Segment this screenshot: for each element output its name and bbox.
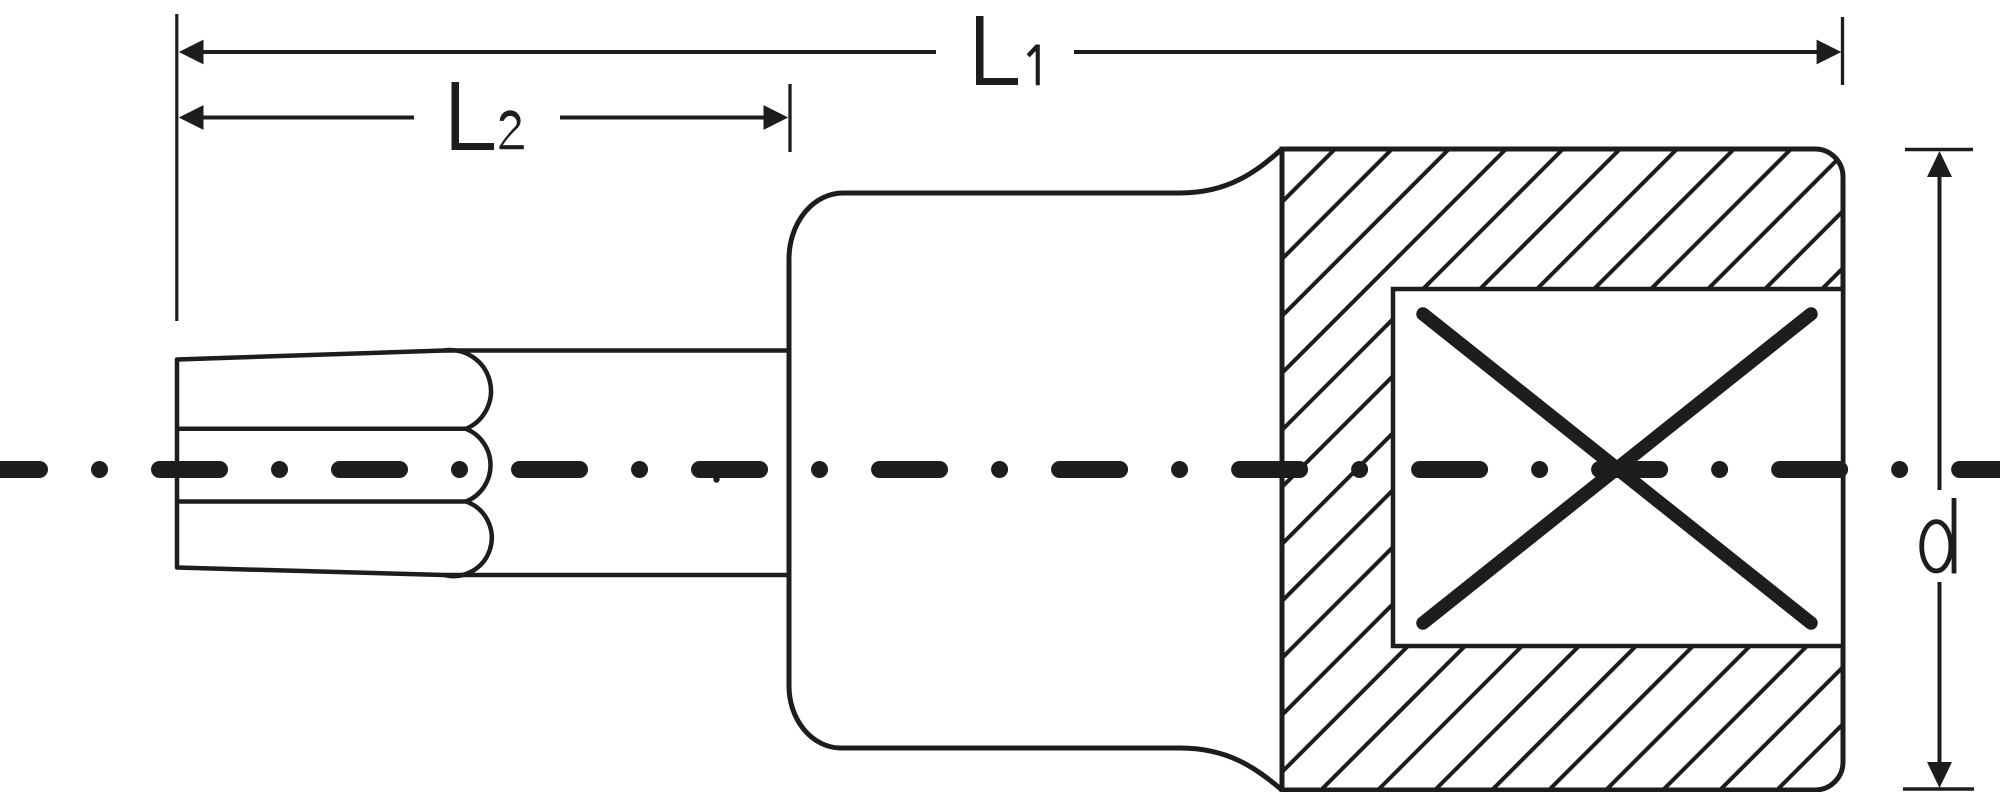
L1 dimension line [200,50,936,54]
shaft top line [444,348,789,353]
L2 dimension line [200,116,414,120]
d label [1922,498,1954,574]
d dimension: lower arrow [1927,762,1952,788]
X cross in drive square [1423,314,1811,623]
d dimension: top tick [1905,148,1973,152]
block outline [1282,149,1843,790]
L2 right extension line [788,84,791,152]
torx tip bottom lobe cap [444,502,492,577]
d dimension: bottom tick [1903,787,1974,791]
d dimension: vertical line [1938,175,1942,490]
shaft bottom line [444,573,789,578]
L1 left arrow [179,40,204,65]
L2 label letter L [452,82,495,150]
L1 right extension line [1841,17,1844,85]
L1 label subscript 1 [1027,45,1040,86]
L2 left arrow [179,105,204,130]
inner drive square (white) [1393,289,1843,646]
torx tip lobe separation lines [177,427,466,432]
hatched drive-square block body [627,140,2000,792]
L1 label letter L [976,16,1018,85]
L2 label subscript 2 [499,110,523,149]
d dimension: upper arrow [1927,151,1952,177]
torx tip outline [177,351,444,576]
L2 right arrow [764,105,789,130]
L1 right arrow [1817,40,1842,65]
left extension line [175,14,178,321]
torx tip top lobe cap [444,350,491,429]
center line (dash-dot) [0,461,2000,478]
small artifact dot [713,476,719,482]
torx tip middle lobe cap [466,429,491,502]
socket body outline [789,149,1282,790]
